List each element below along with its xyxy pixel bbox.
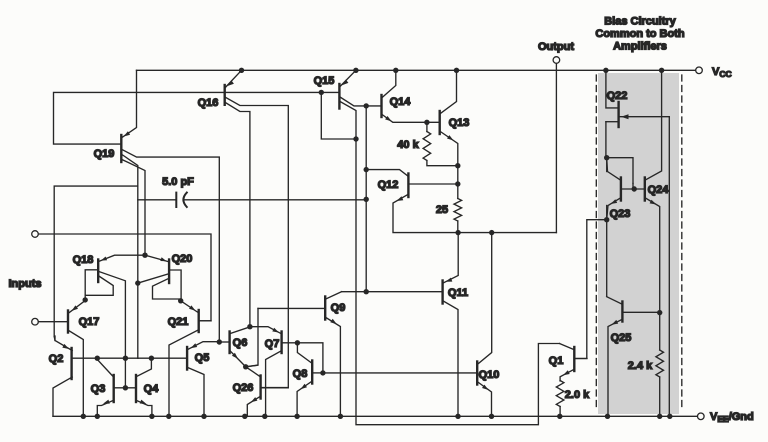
svg-text:Q17: Q17 bbox=[79, 316, 100, 328]
svg-text:Q11: Q11 bbox=[448, 287, 468, 299]
svg-text:Q13: Q13 bbox=[449, 117, 470, 129]
svg-text:Q8: Q8 bbox=[293, 368, 308, 380]
svg-text:Amplifiers: Amplifiers bbox=[613, 41, 667, 53]
svg-text:2.4 k: 2.4 k bbox=[628, 360, 653, 372]
svg-text:25: 25 bbox=[436, 204, 448, 216]
svg-text:Q12: Q12 bbox=[378, 179, 399, 191]
svg-text:Q22: Q22 bbox=[607, 90, 628, 102]
svg-text:Q5: Q5 bbox=[195, 352, 210, 364]
svg-text:Q3: Q3 bbox=[91, 383, 106, 395]
svg-text:Q15: Q15 bbox=[314, 75, 335, 87]
svg-text:Q9: Q9 bbox=[331, 302, 346, 314]
svg-text:Q1: Q1 bbox=[549, 355, 564, 367]
svg-text:Q16: Q16 bbox=[198, 97, 219, 109]
svg-text:Q10: Q10 bbox=[479, 369, 500, 381]
svg-text:Q23: Q23 bbox=[610, 208, 631, 220]
svg-text:Q20: Q20 bbox=[172, 253, 193, 265]
svg-text:VEE/Gnd: VEE/Gnd bbox=[710, 411, 754, 424]
svg-text:Q14: Q14 bbox=[390, 96, 412, 108]
svg-text:Q25: Q25 bbox=[611, 332, 632, 344]
svg-text:40 k: 40 k bbox=[397, 139, 419, 151]
svg-text:Output: Output bbox=[538, 41, 574, 53]
svg-text:VCC: VCC bbox=[712, 66, 732, 79]
svg-text:Q6: Q6 bbox=[233, 337, 248, 349]
svg-text:Common to Both: Common to Both bbox=[595, 28, 684, 40]
svg-text:Bias Circuitry: Bias Circuitry bbox=[604, 16, 676, 28]
svg-text:Q18: Q18 bbox=[73, 254, 94, 266]
svg-text:Q19: Q19 bbox=[94, 148, 115, 160]
svg-text:Q7: Q7 bbox=[265, 338, 280, 350]
svg-text:Q2: Q2 bbox=[49, 353, 64, 365]
svg-text:2.0 k: 2.0 k bbox=[565, 389, 590, 401]
svg-text:5.0 pF: 5.0 pF bbox=[162, 176, 194, 188]
svg-text:Q24: Q24 bbox=[648, 184, 670, 196]
svg-text:Q4: Q4 bbox=[144, 383, 160, 395]
svg-text:Inputs: Inputs bbox=[9, 278, 42, 290]
svg-text:Q26: Q26 bbox=[233, 382, 254, 394]
svg-text:Q21: Q21 bbox=[168, 316, 189, 328]
